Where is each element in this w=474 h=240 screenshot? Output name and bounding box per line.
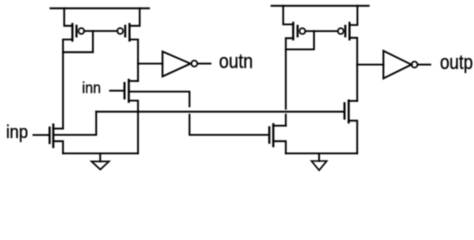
transistor M4 (right PMOS mirror) gate bubble xyxy=(117,28,123,34)
wire: M4 source stub and riser to rail xyxy=(130,8,140,26)
wire: M6 drain stub to node D xyxy=(349,100,358,102)
transistor M6 (NMOS, gate driven by inp net) gate bar xyxy=(343,103,345,118)
wire: M5 source stub and riser to ground xyxy=(273,141,286,153)
wire: M8 source stub and riser to rail xyxy=(350,6,358,25)
wire: M3 source riser to rail xyxy=(64,8,72,26)
wire: inn gate lead xyxy=(110,90,124,92)
transistor M7 (PMOS diode, right half) channel bar xyxy=(292,23,294,40)
wire: PMOS common gate right xyxy=(305,30,338,32)
wire: inp net pass-through and riser xyxy=(54,112,96,135)
wire: inverter U1 input from node B xyxy=(138,63,163,65)
wire: inverter U2 input from node D xyxy=(357,64,383,66)
ground symbol left: triangle xyxy=(92,161,110,169)
transistor M4 gate bar xyxy=(124,26,126,37)
inverter U2 output bubble xyxy=(412,62,418,68)
transistor M7 gate bubble xyxy=(300,28,306,34)
wire: right ground bus xyxy=(286,152,357,154)
inverter U1 triangle xyxy=(163,52,191,77)
transistor M1 channel bar xyxy=(52,125,54,148)
wire: M2 source stub and riser down to ground xyxy=(129,101,138,154)
ground symbol left: stem xyxy=(99,153,101,161)
ground symbol right: triangle xyxy=(312,161,327,170)
wire: inn net below hop, to M5 gate xyxy=(190,115,269,135)
wire: M1 drain stub joining node A xyxy=(53,128,63,130)
wire: M6 source stub and riser down to ground xyxy=(349,121,358,154)
VDD rail right xyxy=(272,5,369,7)
wire: outn lead xyxy=(198,63,211,65)
wire: diode tap M7 gate-drain xyxy=(286,31,314,49)
node inp text label xyxy=(6,123,28,141)
transistor M3 gate bubble xyxy=(78,28,84,34)
transistor M5 channel bar xyxy=(272,124,274,146)
transistor M4 channel bar xyxy=(128,24,130,41)
wire: node C vertical below hop to M5 drain xyxy=(285,115,287,126)
wire: inn net pass-through toward right half xyxy=(130,92,190,107)
node outn text label xyxy=(219,52,253,73)
transistor M6 channel bar xyxy=(348,101,350,123)
wire: PMOS common gate between bubbles xyxy=(84,30,117,32)
transistor M3 gate bar xyxy=(75,26,77,37)
wire: M5 drain stub to node C xyxy=(273,125,286,127)
wire: diode tap M3 gate-drain xyxy=(63,31,93,52)
wire: inp gate lead xyxy=(33,134,49,136)
wire: M7 drain stub and node C vertical (hop gap at inp wire) xyxy=(286,38,293,109)
transistor M8 channel bar xyxy=(348,23,350,40)
wire: inp net long wire to M6 gate xyxy=(96,111,344,113)
transistor M8 (PMOS mirror, right half) gate bubble xyxy=(338,28,344,34)
wire: M8 drain stub and node D vertical down xyxy=(350,38,358,101)
transistor M7 gate bar xyxy=(297,26,299,36)
ground symbol right: stem xyxy=(318,153,320,161)
inverter U1 output bubble xyxy=(191,61,197,67)
transistor M1 (inp NMOS) gate bar xyxy=(49,128,51,143)
wire: M7 source riser to rail xyxy=(283,6,293,25)
transistor M2 (inn NMOS) gate bar xyxy=(123,83,125,98)
inverter U2 triangle xyxy=(383,51,411,79)
transistor M8 gate bar xyxy=(344,26,346,36)
node inn text label xyxy=(82,81,101,97)
wire: M1 source stub and riser to ground xyxy=(53,141,63,153)
node outp text label xyxy=(440,53,473,74)
transistor M5 (NMOS, gate driven by inn net) gate bar xyxy=(268,127,270,142)
wire: left ground bus xyxy=(63,152,138,154)
wire: outp lead xyxy=(418,64,431,66)
wire: M2 drain stub to node B xyxy=(129,80,138,82)
wire: M4 drain stub and node B vertical down xyxy=(130,40,139,82)
transistor M3 (left PMOS, diode-connected) channel bar xyxy=(71,24,73,41)
transistor M2 channel bar xyxy=(128,80,130,102)
VDD rail left xyxy=(51,7,150,9)
wire: M3 drain stub down to node A vertical xyxy=(63,40,72,129)
